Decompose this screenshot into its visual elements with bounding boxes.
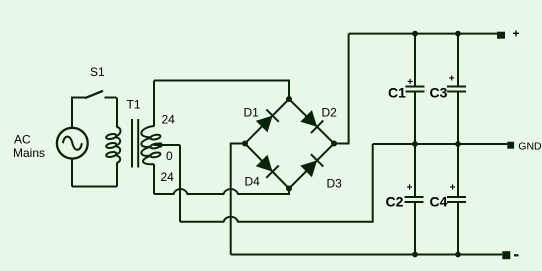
wire primary top lead xyxy=(116,98,118,128)
bridge diamond edges xyxy=(245,99,334,189)
AC source circle xyxy=(57,128,88,159)
transformer core xyxy=(131,119,133,168)
svg-text:S1: S1 xyxy=(90,65,105,79)
svg-text:D3: D3 xyxy=(327,177,343,191)
node center tap dot xyxy=(157,142,163,148)
svg-text:+: + xyxy=(513,29,520,41)
svg-text:D1: D1 xyxy=(244,106,260,120)
node bridge top dot xyxy=(286,96,292,102)
diode D1 xyxy=(256,116,273,133)
transformer secondary coil xyxy=(150,134,161,140)
svg-text:+: + xyxy=(449,74,455,85)
node minus rail dots xyxy=(412,252,418,258)
diode D1 bar xyxy=(266,109,279,121)
diode D4 xyxy=(256,155,273,172)
wire left corner stub xyxy=(231,144,245,255)
wire switch right segment xyxy=(105,97,117,99)
wire primary bottom lead xyxy=(116,163,118,187)
svg-text:D2: D2 xyxy=(322,106,338,120)
terminal plus square xyxy=(497,32,505,39)
node bridge bottom dot xyxy=(286,186,292,192)
wire center tap vertical xyxy=(179,145,181,222)
minus rail xyxy=(231,254,503,256)
wire center tap xyxy=(154,144,180,146)
svg-text:24: 24 xyxy=(162,113,176,127)
transformer secondary lead bottom xyxy=(153,164,155,194)
svg-text:24: 24 xyxy=(161,170,175,184)
svg-text:+: + xyxy=(407,183,413,194)
capacitor C1 plates xyxy=(406,86,425,88)
wire primary bottom xyxy=(72,186,117,188)
terminal minus square xyxy=(502,251,510,259)
switch S1 blade xyxy=(85,91,103,98)
wire right corner to plus rail xyxy=(334,34,349,144)
svg-text:C1: C1 xyxy=(388,85,406,101)
svg-text:+: + xyxy=(450,183,456,194)
capacitor C2 column xyxy=(414,144,416,197)
GND rail xyxy=(373,143,508,145)
capacitor C3 column xyxy=(457,34,459,86)
node plus rail dots xyxy=(412,31,418,37)
wire center tap to GND with hop xyxy=(180,144,373,222)
terminal GND square xyxy=(507,142,514,149)
transformer secondary lead top xyxy=(153,81,155,127)
AC source sine wave xyxy=(63,137,82,150)
svg-text:GND: GND xyxy=(518,140,542,152)
svg-text:AC: AC xyxy=(14,133,31,147)
wire switch left segment xyxy=(71,97,85,99)
wire source top lead xyxy=(71,98,73,128)
transformer T1 primary coil xyxy=(106,133,117,140)
diode D2 bar xyxy=(311,121,323,134)
capacitor C2 plates xyxy=(405,196,424,198)
svg-text:C2: C2 xyxy=(386,194,404,210)
plus rail xyxy=(349,33,497,35)
node bridge right dot xyxy=(331,141,337,147)
minus label dash xyxy=(514,254,519,256)
diode D3 xyxy=(300,160,317,177)
capacitor C3 plates xyxy=(447,86,466,88)
capacitor C4 column xyxy=(457,144,459,197)
svg-text:C4: C4 xyxy=(430,194,448,210)
capacitor C4 plates xyxy=(447,196,466,198)
diode D2 xyxy=(300,110,317,127)
diode D4 bar xyxy=(266,166,279,178)
svg-text:T1: T1 xyxy=(127,98,141,112)
capacitor C1 column xyxy=(414,34,416,86)
wire secondary bottom with hops xyxy=(154,189,289,195)
diode D3 bar xyxy=(311,154,323,166)
svg-text:+: + xyxy=(407,77,413,88)
node GND rail dots xyxy=(412,141,418,147)
wire source bottom lead xyxy=(71,159,73,187)
svg-text:C3: C3 xyxy=(430,85,448,101)
node bridge left dot xyxy=(242,141,248,147)
wire secondary top to bridge xyxy=(154,81,289,100)
svg-text:Mains: Mains xyxy=(13,146,45,160)
svg-text:0: 0 xyxy=(166,149,173,163)
svg-text:D4: D4 xyxy=(245,175,261,189)
